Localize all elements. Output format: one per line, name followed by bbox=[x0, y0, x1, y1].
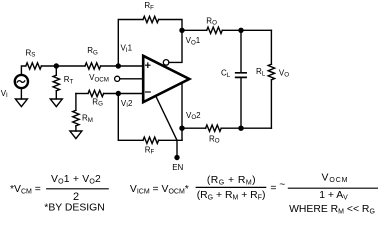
resistor RG top bbox=[85, 63, 101, 69]
wire RG2 to op-amp minus bbox=[104, 93, 143, 95]
wire VOCM to op-amp bbox=[120, 78, 143, 80]
svg-text:1 + AV: 1 + AV bbox=[319, 190, 348, 202]
wire node to RT bbox=[55, 66, 57, 75]
wire right branch down bbox=[270, 30, 272, 64]
svg-text:2: 2 bbox=[73, 191, 79, 203]
node VI1 bbox=[116, 63, 121, 68]
svg-text:VI1: VI1 bbox=[121, 44, 133, 54]
wire RT to ground bbox=[55, 91, 57, 99]
wire VI2 down (RF2 loop left) bbox=[118, 94, 143, 141]
resistor RO bottom bbox=[206, 125, 222, 131]
svg-text:RF: RF bbox=[145, 145, 155, 155]
svg-text:RL: RL bbox=[256, 67, 266, 77]
wire RO2 to right bbox=[221, 127, 271, 129]
resistor RT bbox=[53, 75, 59, 91]
svg-text:RO: RO bbox=[206, 16, 217, 26]
wire RM to ground bbox=[75, 126, 77, 131]
wire RF2 to VO2 branch bbox=[159, 139, 182, 141]
source VI bbox=[15, 75, 28, 88]
node CL top bbox=[238, 28, 243, 33]
wire op-amp out2 down bbox=[181, 83, 183, 141]
svg-text:~: ~ bbox=[279, 180, 285, 191]
svg-text:RG: RG bbox=[87, 46, 98, 56]
svg-text:VO1: VO1 bbox=[186, 36, 201, 46]
svg-text:RF: RF bbox=[144, 1, 154, 11]
node VI2 bbox=[116, 91, 121, 96]
svg-text:VI: VI bbox=[1, 89, 8, 99]
svg-text:WHERE RM << RG: WHERE RM << RG bbox=[289, 204, 375, 216]
node VO2 bbox=[179, 126, 184, 131]
svg-text:CL: CL bbox=[221, 69, 231, 79]
svg-text:VICM = VOCM*: VICM = VOCM* bbox=[130, 184, 189, 196]
resistor RG bottom bbox=[88, 90, 104, 96]
svg-text:RM: RM bbox=[82, 114, 93, 124]
node (RS/RT/RG) bbox=[54, 63, 59, 68]
minus symbol bbox=[146, 91, 151, 93]
wire RG2 corner bbox=[76, 93, 88, 95]
ground (RM) bbox=[70, 131, 82, 139]
svg-text:VOCM: VOCM bbox=[322, 172, 349, 184]
wire EN diagonal bbox=[156, 97, 177, 141]
svg-text:*VCM =: *VCM = bbox=[10, 184, 41, 196]
svg-text:VI2: VI2 bbox=[121, 99, 133, 109]
ground (RT) bbox=[50, 99, 62, 107]
svg-text:=: = bbox=[270, 183, 276, 194]
VOCM terminal bbox=[115, 76, 120, 81]
wire VO1 down to bubble bbox=[169, 30, 182, 62]
resistor RO top bbox=[207, 27, 223, 33]
wire RM branch bbox=[75, 94, 77, 111]
op-amp U1 bbox=[143, 56, 189, 102]
wire EN stub bbox=[176, 140, 178, 155]
capacitor CL bbox=[240, 30, 242, 72]
node VO1 bbox=[179, 28, 184, 33]
svg-text:RS: RS bbox=[26, 48, 36, 58]
svg-text:VOCM: VOCM bbox=[89, 73, 109, 83]
svg-text:RT: RT bbox=[64, 75, 74, 85]
svg-text:VO: VO bbox=[279, 68, 289, 78]
svg-text:(RG + RM + RF): (RG + RM + RF) bbox=[197, 190, 266, 202]
wire VI top bbox=[21, 66, 25, 75]
bubble (inverting output) bbox=[163, 60, 169, 66]
wire RF to VO1 bbox=[159, 20, 182, 31]
wire VO1 row RO bbox=[182, 29, 207, 31]
svg-text:*BY DESIGN: *BY DESIGN bbox=[44, 203, 104, 214]
svg-text:(RG + RM): (RG + RM) bbox=[207, 175, 256, 187]
resistor RF bottom bbox=[143, 137, 159, 143]
svg-text:VO2: VO2 bbox=[186, 111, 201, 121]
wire RS to node bbox=[41, 65, 85, 67]
svg-text:RO: RO bbox=[209, 134, 220, 144]
svg-text:VO1 + VO2: VO1 + VO2 bbox=[51, 174, 101, 186]
resistor RL bbox=[268, 64, 274, 80]
resistor RS bbox=[26, 63, 42, 69]
wire RL bottom bbox=[270, 80, 272, 128]
wire VO2 row RO bbox=[182, 127, 206, 129]
resistor RF top bbox=[143, 16, 159, 22]
ground (VI) bbox=[15, 99, 27, 107]
wire RO to right bbox=[222, 29, 271, 31]
wire VI1 up (RF loop left) bbox=[118, 20, 143, 67]
EN terminal bbox=[174, 155, 179, 160]
svg-text:RG: RG bbox=[92, 97, 103, 107]
wire RG to op-amp + bbox=[101, 65, 143, 67]
node CL bottom bbox=[238, 126, 243, 131]
plus symbol bbox=[146, 63, 150, 67]
resistor RM bbox=[73, 110, 79, 126]
wire VI bottom bbox=[20, 88, 22, 99]
svg-text:EN: EN bbox=[172, 163, 183, 172]
